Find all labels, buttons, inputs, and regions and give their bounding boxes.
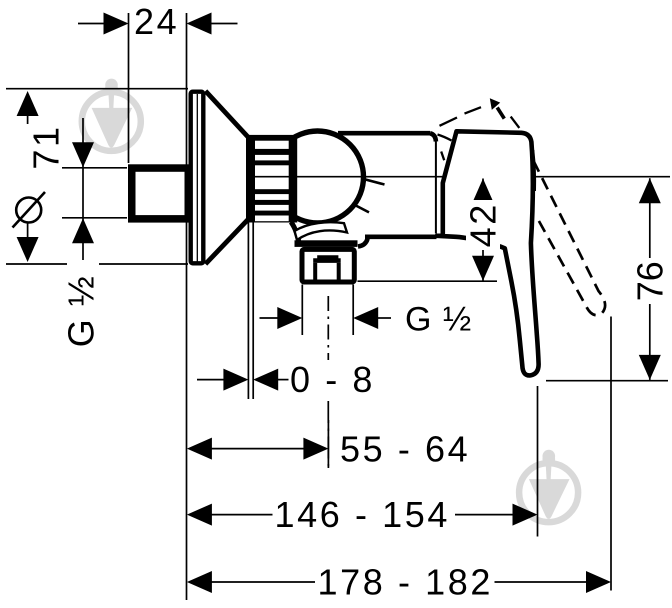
svg-text:71: 71 bbox=[26, 124, 67, 169]
svg-text:42: 42 bbox=[463, 202, 504, 247]
svg-text:146 - 154: 146 - 154 bbox=[275, 494, 451, 535]
svg-text:55 - 64: 55 - 64 bbox=[340, 429, 470, 470]
svg-text:0 - 8: 0 - 8 bbox=[290, 359, 375, 400]
svg-text:76: 76 bbox=[629, 261, 670, 301]
svg-text:24: 24 bbox=[134, 1, 179, 42]
svg-text:178 - 182: 178 - 182 bbox=[318, 562, 494, 603]
svg-text:G ½: G ½ bbox=[405, 301, 472, 339]
svg-text:G ½: G ½ bbox=[61, 275, 102, 348]
